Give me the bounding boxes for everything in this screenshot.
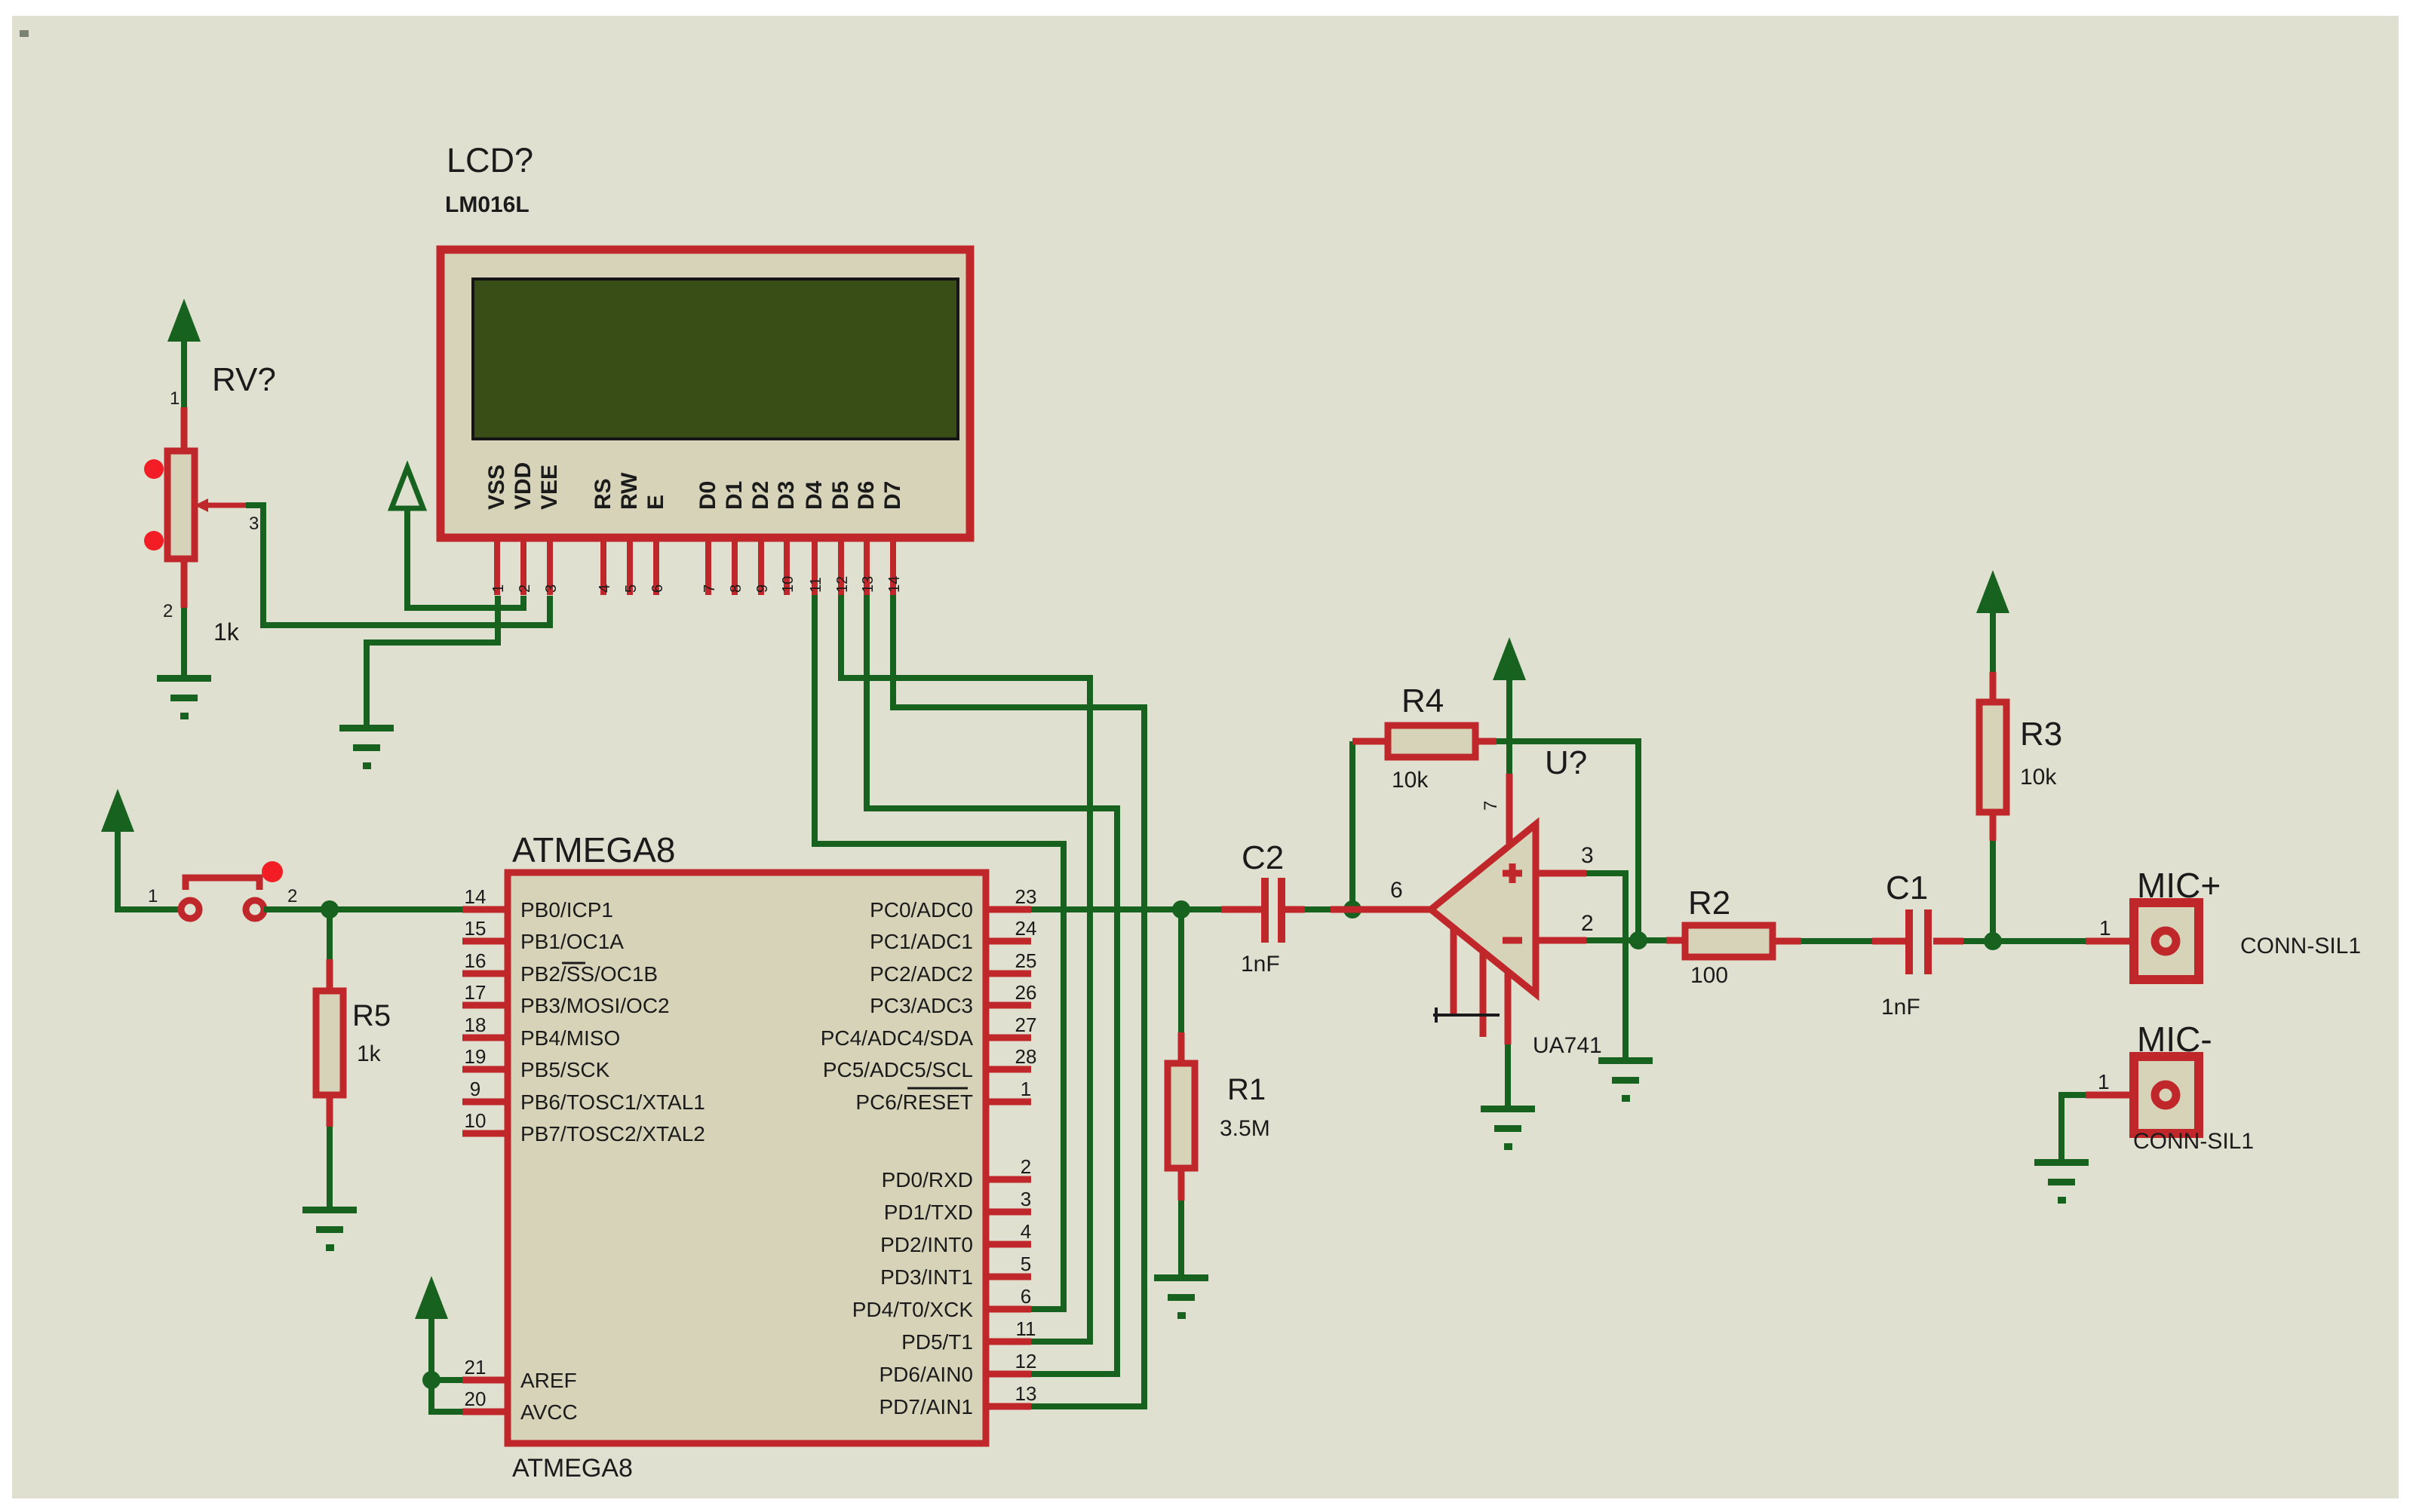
svg-text:PB5/SCK: PB5/SCK <box>520 1058 610 1081</box>
svg-text:MIC-: MIC- <box>2137 1020 2212 1059</box>
svg-text:17: 17 <box>465 981 487 1004</box>
ATMEGA8 right pins PC0-PC6 PD0-PD7 <box>986 909 1031 1406</box>
svg-text:14: 14 <box>465 885 487 908</box>
wire <box>1505 1044 1511 1106</box>
svg-text:PD7/AIN1: PD7/AIN1 <box>880 1395 974 1418</box>
svg-text:27: 27 <box>1015 1014 1037 1036</box>
wire <box>1801 938 1872 944</box>
resistor R1 3.5M <box>1178 909 1184 1032</box>
ground (LCD VSS) <box>339 725 394 769</box>
svg-text:PC6/RESET: PC6/RESET <box>855 1090 973 1114</box>
svg-text:PD4/T0/XCK: PD4/T0/XCK <box>852 1298 974 1321</box>
junction <box>422 1371 441 1389</box>
svg-text:LM016L: LM016L <box>445 192 530 217</box>
wire <box>1586 937 1666 943</box>
LCD display LM016L body <box>441 250 970 538</box>
ground (pin4) <box>1481 1106 1535 1150</box>
ATMEGA8 left pins PB0-PB7 <box>462 909 508 1133</box>
svg-text:CONN-SIL1: CONN-SIL1 <box>2133 1129 2254 1154</box>
svg-text:3.5M: 3.5M <box>1220 1116 1270 1141</box>
svg-text:5: 5 <box>623 584 640 593</box>
svg-text:D1: D1 <box>722 481 747 510</box>
svg-text:R2: R2 <box>1688 885 1730 922</box>
svg-text:PC3/ADC3: PC3/ADC3 <box>870 994 973 1017</box>
svg-text:C2: C2 <box>1242 839 1284 876</box>
svg-text:10: 10 <box>780 576 797 593</box>
capacitor C2 1nF <box>1221 906 1305 913</box>
ground (R5) <box>302 1207 357 1251</box>
svg-text:6: 6 <box>649 584 666 593</box>
svg-text:6: 6 <box>1021 1285 1031 1308</box>
capacitor C1 1nF <box>1872 938 1963 945</box>
wire <box>1586 873 1626 1057</box>
svg-text:LCD?: LCD? <box>447 141 533 179</box>
svg-text:5: 5 <box>1021 1253 1031 1275</box>
svg-text:1: 1 <box>2098 1070 2110 1093</box>
svg-text:PC4/ADC4/SDA: PC4/ADC4/SDA <box>821 1026 974 1050</box>
svg-text:PC0/ADC0: PC0/ADC0 <box>870 898 973 922</box>
svg-text:3: 3 <box>543 584 560 593</box>
resistor R2 100 <box>1666 940 1801 941</box>
push button <box>181 900 199 919</box>
wire <box>1305 906 1331 912</box>
ground (RV) <box>157 675 211 719</box>
wire <box>264 906 462 912</box>
ground (pin3) <box>1598 1057 1653 1102</box>
svg-text:R4: R4 <box>1401 682 1444 719</box>
LCD pin numbers <box>490 576 903 593</box>
wire <box>1963 938 2086 944</box>
junction <box>321 900 339 919</box>
power arrow (LCD VDD, hollow) <box>391 468 423 508</box>
svg-text:1: 1 <box>2099 916 2111 940</box>
svg-text:PB4/MISO: PB4/MISO <box>520 1026 620 1050</box>
svg-text:RW: RW <box>617 472 642 510</box>
svg-text:18: 18 <box>465 1014 487 1036</box>
connector MIC+ CONN-SIL1 <box>2086 938 2134 945</box>
op-amp pin6 lead <box>1331 906 1431 913</box>
wire <box>118 832 181 909</box>
svg-text:10: 10 <box>465 1109 487 1132</box>
svg-text:2: 2 <box>287 886 297 906</box>
wire <box>1990 613 1996 672</box>
svg-text:PC1/ADC1: PC1/ADC1 <box>870 930 973 953</box>
svg-text:R5: R5 <box>352 999 391 1032</box>
ground (R1) <box>1154 1274 1208 1319</box>
svg-text:PD3/INT1: PD3/INT1 <box>880 1265 973 1289</box>
wire <box>431 1318 462 1412</box>
svg-text:7: 7 <box>701 584 718 593</box>
wire <box>246 505 550 625</box>
svg-text:23: 23 <box>1015 885 1037 908</box>
svg-text:1nF: 1nF <box>1241 952 1280 977</box>
svg-text:PB2/SS/OC1B: PB2/SS/OC1B <box>520 962 658 986</box>
svg-text:11: 11 <box>808 577 824 593</box>
svg-text:9: 9 <box>470 1078 480 1100</box>
svg-text:2: 2 <box>163 601 173 621</box>
wire <box>2061 1095 2086 1159</box>
svg-text:D7: D7 <box>880 481 905 510</box>
svg-text:RS: RS <box>591 478 616 510</box>
op-amp pin4 lead <box>1505 970 1512 1044</box>
svg-text:R3: R3 <box>2020 716 2062 753</box>
svg-text:26: 26 <box>1015 981 1037 1004</box>
svg-text:CONN-SIL1: CONN-SIL1 <box>2240 934 2361 958</box>
svg-text:PB0/ICP1: PB0/ICP1 <box>520 898 613 922</box>
svg-text:2: 2 <box>1021 1155 1031 1178</box>
wire <box>407 511 523 608</box>
svg-text:10k: 10k <box>2020 765 2057 790</box>
svg-text:4: 4 <box>1021 1220 1031 1243</box>
op-amp pins 1/5 offset null <box>1454 929 1483 1037</box>
wire <box>1349 741 1355 909</box>
svg-text:UA741: UA741 <box>1533 1033 1602 1058</box>
LCD pin name labels <box>484 462 905 510</box>
svg-text:VDD: VDD <box>511 462 536 510</box>
svg-text:PB3/MOSI/OC2: PB3/MOSI/OC2 <box>520 994 670 1017</box>
svg-text:100: 100 <box>1690 963 1728 988</box>
svg-text:14: 14 <box>886 576 903 593</box>
svg-text:3: 3 <box>1581 843 1594 868</box>
svg-text:AVCC: AVCC <box>520 1400 578 1424</box>
wire <box>181 342 187 407</box>
svg-text:8: 8 <box>728 584 744 593</box>
svg-text:PD1/TXD: PD1/TXD <box>884 1201 973 1224</box>
svg-text:ATMEGA8: ATMEGA8 <box>512 1454 633 1483</box>
svg-text:12: 12 <box>1015 1350 1037 1372</box>
svg-text:15: 15 <box>465 917 487 940</box>
svg-text:PB1/OC1A: PB1/OC1A <box>520 930 624 953</box>
wire <box>181 608 187 675</box>
svg-text:1: 1 <box>170 388 180 409</box>
svg-text:9: 9 <box>754 584 771 593</box>
power VCC arrow (op-amp pin7) <box>1493 637 1526 680</box>
svg-text:10k: 10k <box>1392 768 1429 793</box>
svg-text:12: 12 <box>834 576 851 593</box>
svg-text:PB7/TOSC2/XTAL2: PB7/TOSC2/XTAL2 <box>520 1122 705 1146</box>
svg-text:RV?: RV? <box>212 361 276 398</box>
svg-text:2: 2 <box>1581 911 1594 936</box>
svg-text:13: 13 <box>1015 1382 1037 1405</box>
svg-text:1: 1 <box>1021 1078 1031 1100</box>
op-amp pin3 lead <box>1536 870 1586 877</box>
svg-text:E: E <box>643 495 668 510</box>
svg-text:1: 1 <box>490 584 507 593</box>
svg-text:4: 4 <box>597 584 613 593</box>
wire D7 to PD7 <box>893 595 1144 1406</box>
svg-text:1nF: 1nF <box>1881 995 1920 1020</box>
svg-text:MIC+: MIC+ <box>2137 866 2221 905</box>
svg-text:13: 13 <box>860 576 876 593</box>
LCD screen <box>473 279 958 439</box>
power VCC arrow (RV) <box>167 299 201 342</box>
wire PC0 node <box>1031 906 1221 912</box>
svg-text:D2: D2 <box>748 481 773 510</box>
wire <box>1178 1201 1184 1274</box>
svg-text:21: 21 <box>465 1356 487 1379</box>
svg-text:D4: D4 <box>802 480 827 510</box>
svg-text:1k: 1k <box>213 618 240 646</box>
wire D4 to PD4 <box>815 595 1064 1309</box>
svg-text:D3: D3 <box>774 481 799 510</box>
svg-text:D0: D0 <box>695 481 720 510</box>
resistor R5 <box>327 909 333 959</box>
wire <box>1990 841 1996 941</box>
svg-text:7: 7 <box>1481 801 1501 811</box>
resistor R4 10k <box>1352 738 1497 745</box>
wire <box>327 1127 333 1207</box>
wire <box>1497 741 1638 940</box>
op-amp pin2 lead <box>1536 937 1586 944</box>
junction <box>1343 900 1361 919</box>
resistor R3 10k <box>1990 672 1997 841</box>
svg-text:PD0/RXD: PD0/RXD <box>882 1168 973 1192</box>
svg-text:3: 3 <box>249 514 259 534</box>
wire D5 to PD5 <box>841 595 1090 1342</box>
svg-text:PC5/ADC5/SCL: PC5/ADC5/SCL <box>823 1058 973 1081</box>
svg-text:AREF: AREF <box>520 1369 577 1392</box>
svg-text:19: 19 <box>465 1045 487 1068</box>
ground (MIC-) <box>2034 1159 2089 1204</box>
svg-text:25: 25 <box>1015 949 1037 972</box>
svg-text:R1: R1 <box>1227 1073 1266 1106</box>
svg-text:PD2/INT0: PD2/INT0 <box>880 1233 973 1256</box>
svg-text:11: 11 <box>1016 1317 1036 1340</box>
svg-text:6: 6 <box>1390 878 1403 903</box>
svg-text:C1: C1 <box>1886 869 1928 906</box>
svg-text:20: 20 <box>465 1388 487 1410</box>
svg-text:1: 1 <box>148 886 158 906</box>
svg-text:D6: D6 <box>854 481 879 510</box>
LCD pins 1-14 <box>494 538 896 595</box>
op-amp U? UA741 <box>1506 774 1513 848</box>
svg-text:1k: 1k <box>357 1041 382 1066</box>
svg-text:U?: U? <box>1545 744 1587 781</box>
svg-text:PD5/T1: PD5/T1 <box>901 1330 973 1354</box>
svg-text:VSS: VSS <box>484 465 509 510</box>
potentiometer RV? <box>181 407 188 608</box>
junction <box>1172 900 1190 919</box>
wire D6 to PD6 <box>867 595 1117 1374</box>
junction <box>1984 932 2002 950</box>
power VCC arrow (R3) <box>1976 570 2009 613</box>
svg-text:24: 24 <box>1015 917 1037 940</box>
junction <box>1629 931 1647 949</box>
svg-text:PD6/AIN0: PD6/AIN0 <box>880 1363 974 1386</box>
svg-text:D5: D5 <box>828 481 853 510</box>
svg-text:16: 16 <box>465 949 487 972</box>
connector MIC- CONN-SIL1 <box>2086 1092 2134 1099</box>
ATMEGA8 pins AREF/AVCC <box>462 1377 508 1384</box>
svg-text:PC2/ADC2: PC2/ADC2 <box>870 962 973 986</box>
svg-text:2: 2 <box>517 584 533 593</box>
svg-text:3: 3 <box>1021 1188 1031 1210</box>
svg-text:ATMEGA8: ATMEGA8 <box>512 830 675 869</box>
svg-text:VEE: VEE <box>537 465 562 510</box>
svg-text:28: 28 <box>1015 1045 1037 1068</box>
wire <box>367 596 498 725</box>
svg-text:PB6/TOSC1/XTAL1: PB6/TOSC1/XTAL1 <box>520 1090 705 1114</box>
power VCC arrow (AREF) <box>415 1276 448 1319</box>
power VCC arrow (button) <box>101 789 134 832</box>
wire <box>1506 680 1512 774</box>
